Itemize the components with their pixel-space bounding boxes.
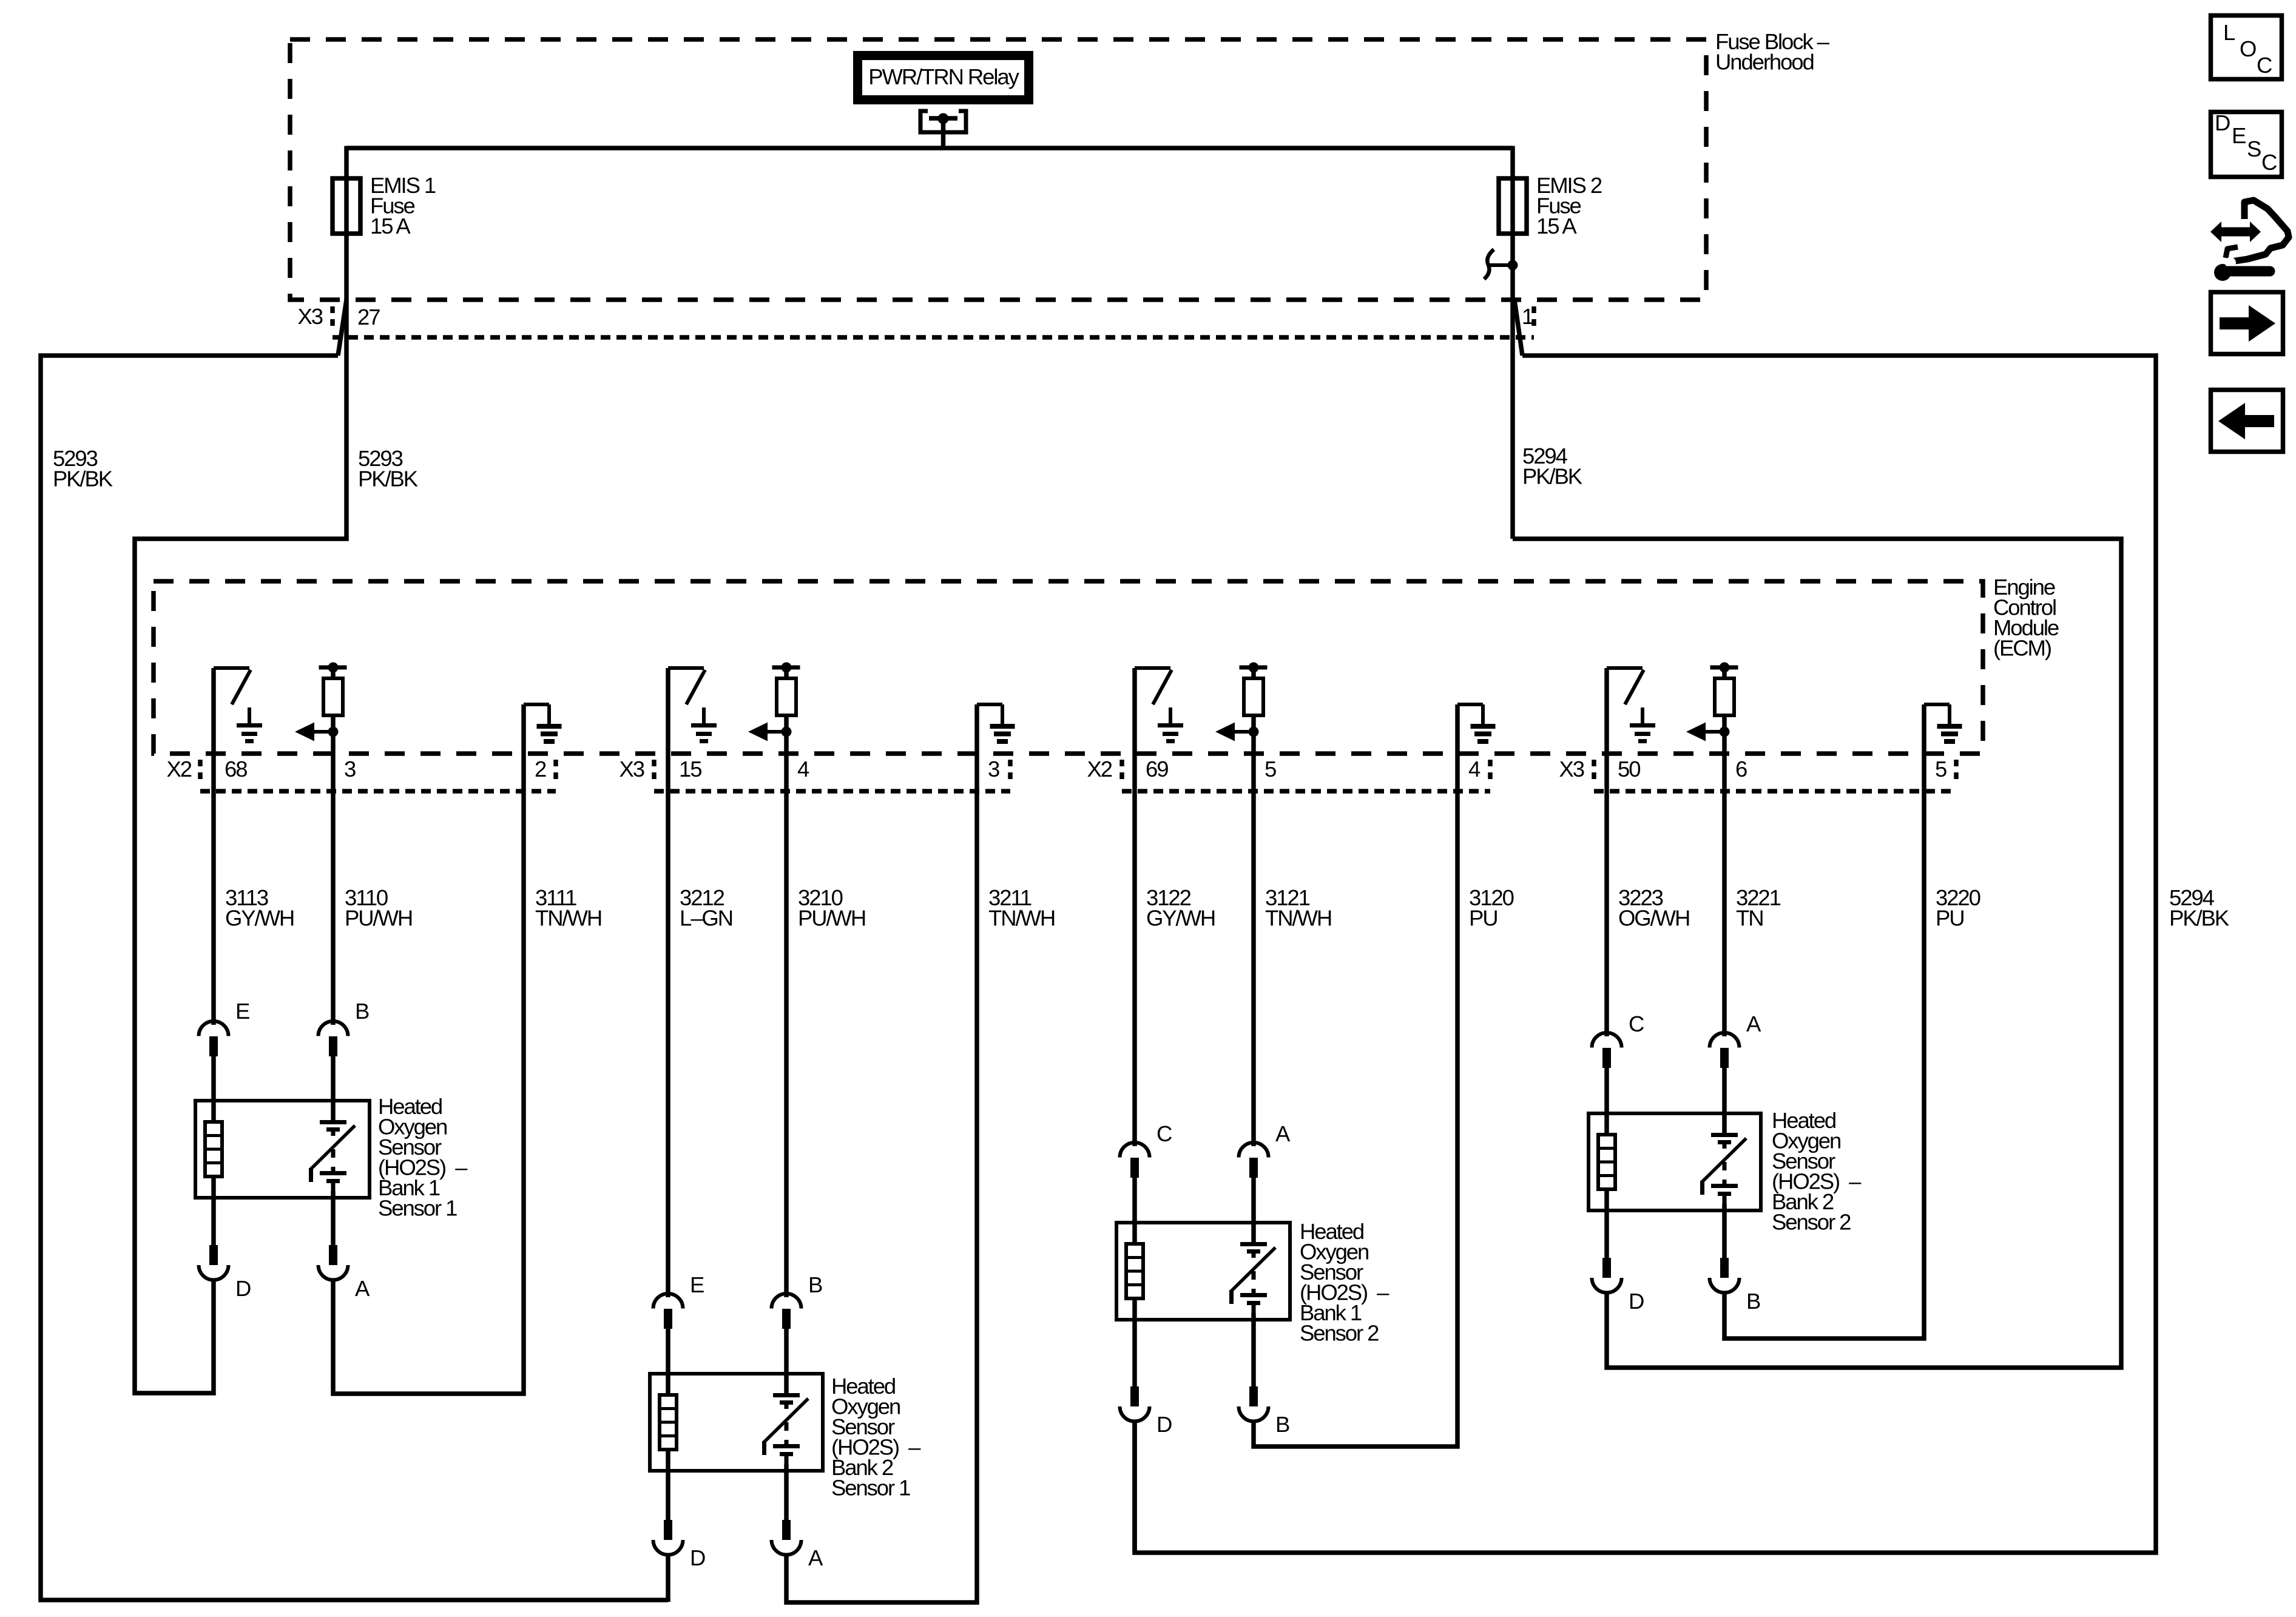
wire: ECM to HO2S4 A [1722, 732, 1727, 1036]
wire: HO2S4 box to B [1722, 1204, 1727, 1258]
svg-text:Sensor 1: Sensor 1 [378, 1196, 457, 1221]
wire: ECM to HO2S4 C [1604, 668, 1609, 1036]
svg-text:A: A [1275, 1121, 1291, 1146]
svg-text:A: A [355, 1276, 370, 1301]
connector D lower half HO2S4 [1592, 1258, 1622, 1293]
pin 50 [1618, 757, 1640, 781]
label pin D HO2S3 [1156, 1412, 1172, 1437]
label wire 3221 TN [1736, 885, 1781, 931]
svg-text:3: 3 [344, 757, 356, 781]
wire: EMIS2 fuse drop [1510, 146, 1515, 539]
svg-text:5: 5 [1264, 757, 1276, 781]
HO2S2 sensor box [650, 1374, 823, 1471]
svg-text:4: 4 [797, 757, 809, 781]
label wire 3210 PU/WH [798, 885, 865, 931]
connector B lower half HO2S3 [1239, 1386, 1269, 1422]
label pin D HO2S2 [690, 1545, 705, 1570]
svg-text:50: 50 [1618, 757, 1640, 781]
connector C upper half HO2S3 [1120, 1143, 1150, 1178]
connector A upper half HO2S3 [1239, 1143, 1269, 1178]
svg-text:C: C [1156, 1121, 1172, 1146]
label pin A HO2S1 [355, 1276, 370, 1301]
svg-text:15: 15 [679, 757, 701, 781]
svg-text:GY/WH: GY/WH [225, 906, 294, 931]
connector B upper half HO2S1 [319, 1021, 348, 1056]
connector D lower half HO2S3 [1120, 1386, 1150, 1422]
HO2S3 sensor box [1116, 1223, 1290, 1320]
HO2S4 sensor box [1589, 1113, 1761, 1210]
HO2S4 sense cell [1700, 1133, 1746, 1204]
svg-text:S: S [2247, 137, 2261, 161]
HO2S4 heater element [1598, 1135, 1615, 1189]
fuse F1 EMIS 1 15A [333, 178, 360, 234]
icon LOC letters [2223, 20, 2272, 78]
svg-text:D: D [2215, 110, 2230, 135]
connector E upper half HO2S2 [653, 1294, 683, 1329]
label wire 3223 OG/WH [1618, 885, 1689, 931]
pin 68 [225, 757, 247, 781]
wire: HO2S2 box to D [666, 1450, 670, 1520]
label pin A HO2S2 [808, 1545, 823, 1570]
splice S1 below EMIS2 fuse [1484, 249, 1518, 279]
connector E upper half HO2S1 [199, 1021, 229, 1056]
connector A lower half HO2S2 [772, 1520, 802, 1555]
HO2S1 sense cell [309, 1120, 355, 1191]
wire: HO2S3 B to ECM pin4 [1254, 704, 1457, 1447]
wire: E to HO2S2 box [666, 1328, 670, 1395]
label pin B HO2S4 [1746, 1289, 1760, 1314]
svg-text:15 A: 15 A [1536, 214, 1577, 238]
svg-text:O: O [2240, 36, 2256, 61]
pin 4 [1468, 757, 1481, 781]
ECM driver switch Q4 (pin 50) [1607, 668, 1655, 743]
label connector X3 group 4 [1559, 757, 1584, 781]
wire: ECM to HO2S2 E [666, 668, 670, 1297]
svg-text:C: C [2257, 53, 2272, 78]
svg-text:C: C [1629, 1011, 1644, 1036]
icon DESC letters [2215, 110, 2277, 175]
svg-text:2: 2 [535, 757, 546, 781]
svg-text:PU/WH: PU/WH [798, 906, 865, 931]
connector D lower half HO2S2 [653, 1520, 683, 1555]
wire: ECM to HO2S3 A [1251, 732, 1256, 1146]
icon LOC box [2211, 16, 2282, 79]
svg-text:5: 5 [1935, 757, 1947, 781]
connector sep left [330, 306, 335, 332]
pin label X3 [298, 304, 323, 329]
svg-text:L: L [2223, 20, 2235, 45]
svg-text:B: B [1275, 1412, 1289, 1437]
ECM bias resistor R2 (pin 4) [748, 663, 800, 741]
svg-text:OG/WH: OG/WH [1618, 906, 1689, 931]
svg-text:Sensor 1: Sensor 1 [831, 1476, 910, 1501]
wire: HO2S2 D drop [666, 1555, 670, 1602]
fuse block label [1715, 29, 1830, 54]
wire: ECM to HO2S1 B [331, 732, 336, 1025]
connector B lower half HO2S4 [1710, 1258, 1740, 1293]
wire: ECM to HO2S2 B [784, 732, 789, 1297]
label wire 3220 PU [1936, 885, 1980, 931]
wire: 5294 inner run to HO2S4 D [1513, 539, 2121, 1368]
pin 2 [535, 757, 546, 781]
svg-text:PWR/TRN Relay: PWR/TRN Relay [868, 64, 1019, 89]
icon arrow-left [2218, 403, 2274, 439]
wire: EMIS1 fuse drop [344, 146, 349, 300]
PWR/TRN relay text [868, 64, 1019, 89]
wire: B to HO2S1 box [331, 1055, 336, 1120]
svg-text:(ECM): (ECM) [1993, 636, 2051, 661]
wire: ECM to HO2S3 C [1132, 668, 1137, 1146]
svg-text:PK/BK: PK/BK [358, 467, 418, 491]
HO2S2 heater element [660, 1395, 677, 1450]
ECM dashed box [154, 581, 1983, 754]
ECM bias resistor R3 (pin 5) [1215, 663, 1268, 741]
svg-text:X3: X3 [1559, 757, 1584, 781]
svg-text:E: E [235, 999, 249, 1024]
label wire 3120 PU [1469, 885, 1514, 931]
label EMIS 2 fuse [1536, 173, 1602, 238]
wire: A to HO2S4 box [1722, 1067, 1727, 1133]
wire: HO2S1 A to ECM pin2 [333, 704, 524, 1394]
label 5293 PK/BK inner [358, 446, 418, 491]
fuse block - underhood dashed box [290, 39, 1706, 300]
pin 3 [344, 757, 356, 781]
pin 27 [357, 305, 380, 329]
svg-text:X3: X3 [620, 757, 644, 781]
label pin B HO2S3 [1275, 1412, 1289, 1437]
svg-text:PU: PU [1469, 906, 1497, 931]
svg-text:GY/WH: GY/WH [1146, 906, 1215, 931]
label HO2S4 name [1772, 1108, 1862, 1235]
icon DESC box [2211, 112, 2282, 177]
icon arrow-right [2220, 305, 2275, 342]
pin 5 [1264, 757, 1276, 781]
pin 5 [1935, 757, 1947, 781]
svg-text:A: A [808, 1545, 823, 1570]
HO2S1 heater element [205, 1122, 222, 1176]
wire: E to HO2S1 box [211, 1055, 216, 1122]
label wire 3121 TN/WH [1265, 885, 1331, 931]
fuse F2 EMIS 2 15A [1499, 178, 1527, 234]
label wire 3122 GY/WH [1146, 885, 1215, 931]
wire: 5293 outer-left run [41, 356, 668, 1600]
pin 6 [1735, 757, 1747, 781]
svg-text:E: E [690, 1272, 704, 1297]
wire: HO2S1 box to A [331, 1191, 336, 1245]
wire: ECM to HO2S1 E [211, 668, 216, 1025]
ECM internal ground G2 (pin 3) [977, 704, 1015, 744]
svg-text:Sensor 2: Sensor 2 [1772, 1210, 1851, 1235]
svg-text:TN: TN [1736, 906, 1763, 931]
label HO2S2 name [831, 1374, 921, 1501]
connector sep right [1531, 306, 1536, 332]
label wire 3212 L&#8211;GN [680, 885, 732, 931]
connector D lower half HO2S1 [199, 1245, 229, 1280]
label connector X2 group 3 [1087, 757, 1112, 781]
label EMIS 1 fuse [370, 173, 436, 238]
label connector X2 group 1 [167, 757, 192, 781]
label wire 3110 PU/WH [345, 885, 412, 931]
label 5293 PK/BK outer [53, 446, 113, 491]
svg-text:X3: X3 [298, 304, 323, 329]
wire: HO2S3 box to D [1132, 1298, 1137, 1386]
wire: C to HO2S3 box [1132, 1176, 1137, 1244]
svg-text:Underhood: Underhood [1715, 50, 1814, 75]
HO2S1 sensor box [195, 1101, 370, 1198]
wire: B to HO2S2 box [784, 1328, 789, 1393]
ECM internal ground G4 (pin 5) [1924, 704, 1962, 744]
svg-text:B: B [355, 999, 369, 1024]
ECM driver switch Q1 (pin 68) [214, 668, 262, 743]
ECM bias resistor R1 (pin 3) [295, 663, 347, 741]
ECM connector row group 3 [1122, 760, 1490, 791]
pin 69 [1146, 757, 1168, 781]
svg-text:A: A [1746, 1011, 1761, 1036]
wire: HO2S3 box to B [1251, 1313, 1256, 1386]
svg-text:TN/WH: TN/WH [535, 906, 601, 931]
svg-text:PK/BK: PK/BK [1522, 464, 1582, 489]
svg-text:3: 3 [988, 757, 999, 781]
svg-text:6: 6 [1735, 757, 1747, 781]
pin 1 [1522, 304, 1533, 329]
svg-text:L–GN: L–GN [680, 906, 732, 931]
svg-text:PK/BK: PK/BK [53, 467, 113, 491]
svg-text:15 A: 15 A [370, 214, 411, 238]
label HO2S1 name [378, 1094, 468, 1221]
svg-text:PU: PU [1936, 906, 1964, 931]
wire: C to HO2S4 box [1604, 1067, 1609, 1135]
icon arrow-right box [2211, 292, 2283, 354]
connector row C100 dotted line [333, 335, 1534, 340]
wire: relay feed horizontal bus [346, 146, 1513, 150]
relay K contact symbol [920, 111, 966, 150]
connector B upper half HO2S2 [772, 1294, 802, 1329]
ECM internal ground G3 (pin 4) [1457, 704, 1496, 744]
fuse block label line2 [1715, 50, 1814, 75]
label pin C HO2S4 [1629, 1011, 1644, 1036]
wire: slant right branch [1514, 300, 1522, 356]
svg-text:Sensor 2: Sensor 2 [1300, 1321, 1379, 1346]
connector C upper half HO2S4 [1592, 1033, 1622, 1068]
pin 15 [679, 757, 701, 781]
svg-text:C: C [2261, 150, 2277, 175]
wire: HO2S4 box to D [1604, 1189, 1609, 1258]
ECM connector row group 4 [1594, 760, 1956, 791]
wire: 5294 outer-right run to HO2S3 D [1135, 356, 2156, 1553]
HO2S3 sense cell [1229, 1242, 1275, 1313]
label Engine Control Module (ECM) [1993, 575, 2059, 661]
svg-text:X2: X2 [167, 757, 192, 781]
svg-text:D: D [1156, 1412, 1172, 1437]
ECM connector row group 1 [200, 760, 556, 791]
ECM internal ground G1 (pin 2) [524, 704, 562, 744]
svg-text:68: 68 [225, 757, 247, 781]
svg-text:E: E [2232, 123, 2246, 148]
label pin C HO2S3 [1156, 1121, 1172, 1146]
label connector X3 group 2 [620, 757, 644, 781]
svg-text:B: B [808, 1272, 822, 1297]
label pin D HO2S4 [1629, 1289, 1644, 1314]
wire: HO2S1 box to D [211, 1176, 216, 1245]
label pin A HO2S4 [1746, 1011, 1761, 1036]
svg-text:X2: X2 [1087, 757, 1112, 781]
label HO2S3 name [1300, 1219, 1389, 1346]
wire: HO2S2 box to A [784, 1464, 789, 1520]
svg-text:4: 4 [1468, 757, 1481, 781]
label pin D HO2S1 [235, 1276, 251, 1301]
svg-text:1: 1 [1522, 304, 1533, 329]
label wire 3111 TN/WH [535, 885, 601, 931]
wire: 5293 inner run to HO2S1 D [135, 300, 346, 1393]
icon arrow-left box [2211, 390, 2283, 452]
wire: A to HO2S3 box [1251, 1176, 1256, 1242]
label 5294 PK/BK inner [1522, 444, 1582, 489]
label 5294 PK/BK outer [2169, 885, 2229, 931]
pin 4 [797, 757, 809, 781]
svg-text:69: 69 [1146, 757, 1168, 781]
label pin A HO2S3 [1275, 1121, 1291, 1146]
wire: slant left branch [338, 300, 346, 356]
svg-text:D: D [690, 1545, 705, 1570]
label wire 3211 TN/WH [988, 885, 1055, 931]
label wire 3113 GY/WH [225, 885, 294, 931]
svg-text:D: D [1629, 1289, 1644, 1314]
connector A lower half HO2S1 [319, 1245, 348, 1280]
svg-text:27: 27 [357, 305, 380, 329]
wire: HO2S2 A to ECM pin3 [786, 704, 977, 1602]
label pin B HO2S1 [355, 999, 369, 1024]
PWR/TRN relay name box [858, 56, 1029, 100]
ECM connector row group 2 [654, 760, 1010, 791]
svg-text:D: D [235, 1276, 251, 1301]
label pin E HO2S2 [690, 1272, 704, 1297]
HO2S3 heater element [1126, 1244, 1143, 1298]
HO2S2 sense cell [762, 1393, 808, 1464]
svg-text:PU/WH: PU/WH [345, 906, 412, 931]
label pin B HO2S2 [808, 1272, 822, 1297]
svg-text:TN/WH: TN/WH [1265, 906, 1331, 931]
icon schematic-nav (arrow + wrench) [2210, 200, 2289, 281]
wire: HO2S3 D drop [1132, 1421, 1137, 1553]
ECM bias resistor R4 (pin 6) [1686, 663, 1738, 741]
connector A upper half HO2S4 [1710, 1033, 1740, 1068]
wire: HO2S4 B to ECM pin5 [1724, 704, 1924, 1338]
pin 3 [988, 757, 999, 781]
ECM driver switch Q3 (pin 69) [1135, 668, 1183, 743]
svg-text:TN/WH: TN/WH [988, 906, 1055, 931]
ECM driver switch Q2 (pin 15) [668, 668, 717, 743]
svg-text:PK/BK: PK/BK [2169, 906, 2229, 931]
svg-text:B: B [1746, 1289, 1760, 1314]
label pin E HO2S1 [235, 999, 249, 1024]
